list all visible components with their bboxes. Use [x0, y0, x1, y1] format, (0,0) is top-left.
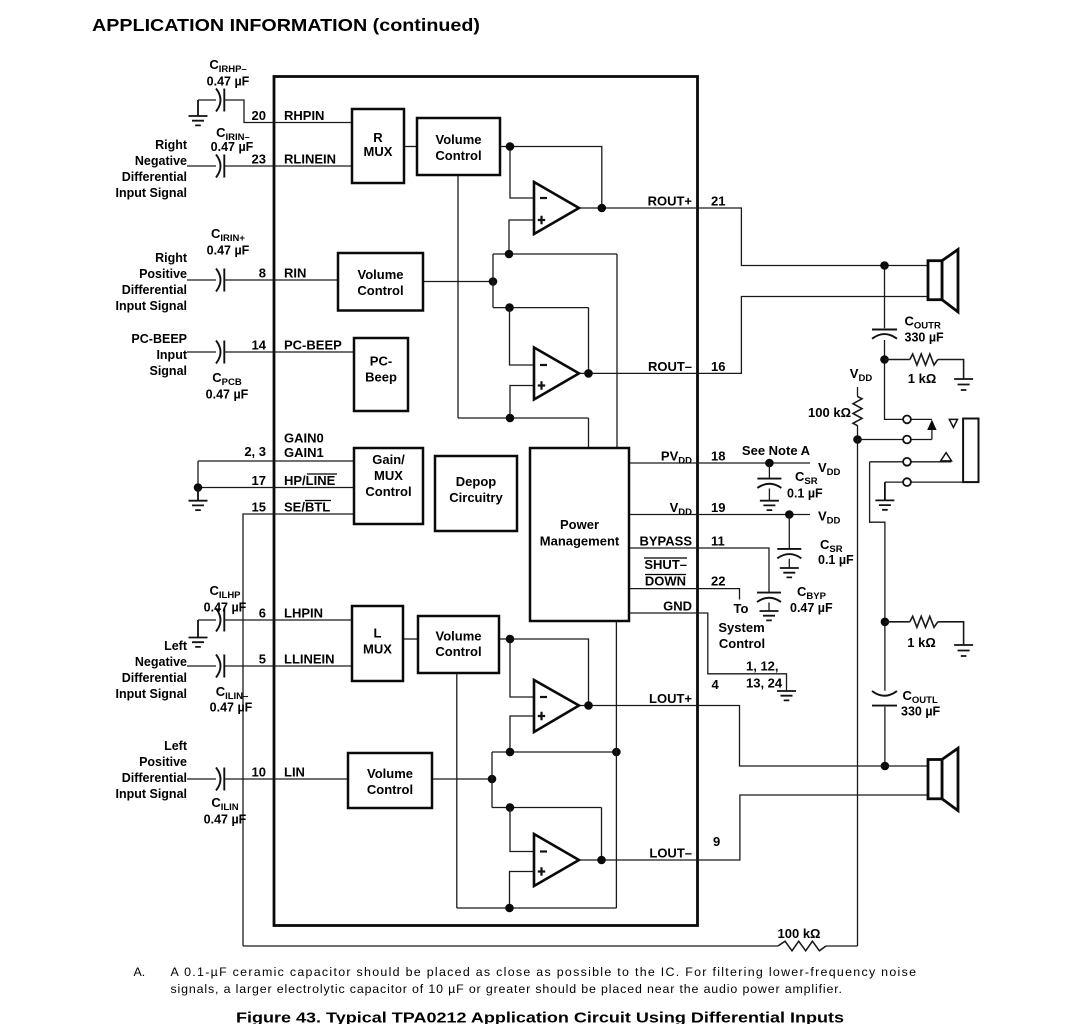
svg-text:21: 21 [711, 194, 725, 209]
resistor 100 kOhm feedback (bottom) [243, 945, 778, 947]
wire VDD pin 19 from power management [629, 514, 698, 516]
op-amp U2A ROUT+ [534, 182, 579, 234]
svg-text:System: System [718, 620, 764, 635]
svg-text:MUX: MUX [364, 144, 393, 159]
block Volume Control (RIN) [338, 253, 423, 311]
svg-text:HP/LINE: HP/LINE [284, 473, 336, 488]
svg-text:1, 12,: 1, 12, [746, 659, 779, 674]
junction RIN VC node [489, 277, 498, 286]
svg-text:Input Signal: Input Signal [115, 787, 187, 801]
svg-text:LLINEIN: LLINEIN [284, 652, 335, 667]
wire PC-BEEP input net [187, 351, 274, 353]
wire vertical link node A to node B [492, 254, 494, 308]
block Depop Circuitry [435, 456, 517, 531]
svg-text:0.47 µF: 0.47 µF [211, 140, 254, 154]
wire node D horizontal [492, 751, 616, 753]
svg-text:0.1 µF: 0.1 µF [787, 487, 823, 501]
svg-text:MUX: MUX [363, 642, 392, 657]
svg-text:Beep: Beep [365, 370, 397, 385]
capacitor CIRIN+ 0.47uF [216, 269, 224, 292]
capacitor CILIN- 0.47uF [216, 655, 224, 678]
wire L volume control bottom tap to node F [456, 673, 458, 908]
svg-text:Negative: Negative [135, 655, 187, 669]
svg-text:Control: Control [719, 636, 765, 651]
block R MUX [352, 109, 404, 183]
wire ROUT+ pin 21 to right speaker [698, 208, 928, 266]
svg-text:16: 16 [711, 359, 725, 374]
wire node A to power management [616, 254, 618, 448]
wire pin20 RHPIN to R MUX [274, 122, 352, 124]
wire pin8 RIN to Volume Control [274, 279, 338, 281]
wire ROUT+ output pin 21 [579, 207, 698, 209]
wire pin14 PC-BEEP to PC-Beep block [274, 351, 354, 353]
wire node A horizontal [493, 253, 617, 255]
svg-text:LOUT+: LOUT+ [649, 691, 692, 706]
wire node C to power management [588, 418, 590, 448]
svg-text:ROUT–: ROUT– [648, 359, 692, 374]
wire COUTL to left speaker node [884, 707, 886, 766]
svg-text:11: 11 [711, 534, 725, 549]
svg-text:100 kΩ: 100 kΩ [778, 926, 821, 941]
jack switch contact (open, up) [941, 453, 952, 461]
svg-text:23: 23 [252, 152, 266, 167]
junction node L volume out [506, 635, 515, 644]
ground for GND pins 1,12,13,24 [777, 691, 796, 700]
wire pins2,3 GAIN to Gain/MUX Control [274, 460, 354, 462]
resistor 100 kOhm pull-up [857, 387, 859, 397]
svg-text:Right: Right [155, 138, 188, 152]
junction node E [506, 803, 515, 812]
svg-text:MUX: MUX [374, 468, 403, 483]
wire node B horizontal [493, 307, 589, 309]
ground for CSR2 [780, 568, 799, 577]
junction ROUT- output node [584, 369, 593, 378]
svg-text:Volume: Volume [436, 132, 482, 147]
svg-text:19: 19 [711, 500, 725, 515]
svg-text:PC-BEEP: PC-BEEP [131, 332, 187, 346]
svg-text:4: 4 [712, 677, 720, 692]
wire GAIN0/GAIN1 net pins 2,3 [198, 461, 274, 488]
svg-text:0.1 µF: 0.1 µF [818, 553, 854, 567]
svg-text:Control: Control [365, 484, 411, 499]
junction 1k R node [880, 355, 889, 364]
junction LOUT+ output node [584, 701, 593, 710]
wire pin10 LIN to Volume Control [274, 778, 348, 780]
junction node D [506, 748, 515, 757]
svg-text:RHPIN: RHPIN [284, 108, 324, 123]
wire LIN volume control output [432, 778, 492, 780]
wire BYPASS pin 11 external to CBYP [698, 548, 769, 592]
junction node D right at PM drop [612, 748, 621, 757]
svg-text:Positive: Positive [139, 755, 187, 769]
ground for CSR1 [760, 501, 779, 510]
wire speaker node down to COUTR [884, 266, 886, 329]
svg-text:0.47 µF: 0.47 µF [207, 75, 250, 89]
svg-text:Control: Control [367, 782, 413, 797]
wire contact3 drop to COUTL branch [870, 462, 885, 691]
wire ROUT- pin 16 to right speaker [698, 297, 928, 374]
svg-text:signals, a larger electrolytic: signals, a larger electrolytic capacitor… [171, 982, 842, 996]
svg-text:13, 24: 13, 24 [746, 676, 783, 691]
junction node C [506, 414, 515, 423]
svg-text:PC-BEEP: PC-BEEP [284, 338, 342, 353]
wire pin23 RLINEIN to R MUX [274, 165, 352, 167]
junction LOUT+ speaker node [881, 762, 890, 771]
wire BYPASS pin 11 from power management [629, 547, 698, 549]
wire L Volume Control output to node [499, 638, 510, 640]
resistor 1 kOhm (left channel) [885, 621, 910, 623]
jack body [963, 419, 978, 483]
ground for HP/LINE and GAIN pins [189, 488, 208, 511]
junction node F [505, 904, 514, 913]
svg-text:SE/BTL: SE/BTL [284, 500, 330, 515]
svg-text:0.47 µF: 0.47 µF [206, 388, 249, 402]
block Volume Control (left top) [418, 616, 499, 673]
capacitor CPCB 0.47uF [216, 341, 224, 364]
wire pin5 LLINEIN to L MUX [274, 665, 352, 667]
capacitor COUTR 330uF [872, 330, 897, 339]
wire LIN input net [187, 778, 274, 780]
svg-text:A.: A. [134, 965, 146, 979]
wire COUTR to 1k junction and jack tip [885, 340, 904, 419]
svg-text:Differential: Differential [122, 671, 187, 685]
junction LOUT- output node [597, 856, 606, 865]
wire RIN volume control output [423, 281, 493, 283]
svg-text:8: 8 [259, 266, 266, 281]
wire volume control bottom tap to node C [457, 175, 459, 418]
wire noninverting input U2B to node C [510, 386, 534, 419]
speaker left channel [928, 748, 958, 810]
svg-text:APPLICATION INFORMATION (conti: APPLICATION INFORMATION (continued) [92, 15, 480, 35]
resistor 1 kOhm (right channel) [885, 359, 910, 361]
wire RHPIN net: ground-cap-jog into pin 20 [198, 100, 274, 123]
svg-text:Gain/: Gain/ [372, 452, 405, 467]
svg-text:BYPASS: BYPASS [640, 534, 693, 549]
junction ROUT+ output node [598, 204, 607, 213]
svg-text:See Note A: See Note A [742, 443, 811, 458]
svg-text:PC-: PC- [370, 354, 392, 369]
wire to inverting input amp U2A [510, 147, 534, 199]
wire RIN input net [187, 279, 274, 281]
wire GND pin from power management [629, 612, 698, 614]
wire R MUX to Volume Control [404, 146, 417, 148]
block Volume Control (right top) [417, 118, 500, 175]
wire sense node to jack ring contact [858, 439, 932, 441]
op-amp U3A LOUT+ [534, 680, 579, 732]
wire SHUTDOWN pin 22 from power management [629, 588, 698, 590]
wire pin17 HP/LINE to Gain/MUX Control [274, 487, 354, 489]
block PC-Beep [354, 338, 408, 411]
svg-text:RIN: RIN [284, 266, 306, 281]
op-amp U2B ROUT- [534, 348, 579, 400]
svg-text:Right: Right [155, 251, 188, 265]
svg-text:Volume: Volume [358, 267, 404, 282]
svg-text:R: R [373, 130, 383, 145]
wire node C horizontal [458, 417, 589, 419]
wire LLINEIN input net [187, 665, 274, 667]
svg-text:Control: Control [435, 148, 481, 163]
wire ROUT- output pin 16 [579, 372, 698, 374]
wire noninverting input amp U2A down to node A [509, 220, 534, 254]
capacitor CSR 0.1uF at PVDD [768, 463, 770, 478]
svg-text:Input Signal: Input Signal [115, 687, 187, 701]
svg-text:Differential: Differential [122, 771, 187, 785]
wire noninverting input U3A down to node D [510, 716, 534, 752]
svg-text:Left: Left [164, 739, 188, 753]
wire to inverting input amp U3A [510, 639, 534, 697]
svg-text:Signal: Signal [149, 364, 187, 378]
svg-text:0.47 µF: 0.47 µF [790, 601, 833, 615]
block Gain/MUX Control [354, 448, 423, 524]
svg-text:Figure 43. Typical TPA0212 App: Figure 43. Typical TPA0212 Application C… [236, 1011, 844, 1024]
svg-text:5: 5 [259, 652, 266, 667]
wire pin15 SE/BTL to Gain/MUX Control [274, 513, 354, 515]
svg-text:RLINEIN: RLINEIN [284, 152, 336, 167]
svg-text:ROUT+: ROUT+ [648, 194, 693, 209]
junction node A [505, 250, 514, 259]
wire SE/BTL net pin 15 going down to 100k [243, 514, 274, 946]
svg-text:DOWN: DOWN [645, 574, 686, 589]
junction node B [505, 303, 514, 312]
wire LOUT+ output pin 4 [579, 705, 698, 707]
svg-text:Left: Left [164, 639, 188, 653]
wire sense line down to 100k bottom [857, 440, 859, 947]
capacitor CILHP 0.47uF [216, 609, 224, 632]
capacitor CIRHP- 0.47uF [216, 89, 224, 112]
jack switch arrow (filled) [927, 420, 936, 430]
svg-text:L: L [374, 626, 382, 641]
jack contact circles [903, 416, 911, 424]
block Power Management [530, 448, 629, 621]
svg-text:14: 14 [252, 338, 267, 353]
junction VDD node [785, 510, 794, 519]
svg-text:1 kΩ: 1 kΩ [907, 635, 936, 650]
block Volume Control (LIN) [348, 753, 432, 808]
svg-text:Circuitry: Circuitry [449, 490, 503, 505]
capacitor COUTL 330uF [872, 691, 897, 706]
wire jack tip extension [911, 418, 932, 420]
svg-text:1 kΩ: 1 kΩ [908, 371, 937, 386]
wire feedback LOUT+ amp top [510, 639, 589, 706]
svg-text:18: 18 [711, 449, 725, 464]
svg-text:Volume: Volume [367, 766, 413, 781]
svg-text:Input Signal: Input Signal [115, 186, 187, 200]
junction LIN VC node [488, 775, 497, 784]
svg-text:Differential: Differential [122, 283, 187, 297]
wire node F horizontal [457, 907, 617, 909]
svg-text:To: To [734, 601, 749, 616]
block L MUX [352, 606, 403, 681]
capacitor CBYP 0.47uF [757, 593, 781, 602]
svg-text:Negative: Negative [135, 154, 187, 168]
wire jack contact 4 sleeve [885, 481, 963, 483]
wire feedback ROUT+ amp top [510, 147, 602, 209]
svg-text:330 µF: 330 µF [901, 705, 941, 719]
wire node E to inverting input amp U3B [510, 808, 534, 852]
svg-text:GAIN0: GAIN0 [284, 431, 324, 446]
svg-text:Differential: Differential [122, 170, 187, 184]
junction ROUT+ speaker node [880, 261, 889, 270]
svg-text:LIN: LIN [284, 765, 305, 780]
jack switch contact (open, down) [949, 419, 957, 427]
svg-text:Depop: Depop [456, 474, 497, 489]
wire noninverting input U3B to node F [510, 872, 535, 909]
svg-text:2, 3: 2, 3 [244, 444, 266, 459]
svg-text:0.47 µF: 0.47 µF [204, 813, 247, 827]
svg-text:0.47 µF: 0.47 µF [204, 601, 247, 615]
svg-text:Management: Management [540, 534, 620, 549]
svg-text:Positive: Positive [139, 267, 187, 281]
svg-text:15: 15 [252, 500, 266, 515]
wire feedback amp U3B [601, 808, 603, 861]
wire node E horizontal [492, 807, 602, 809]
svg-text:LHPIN: LHPIN [284, 606, 323, 621]
wire VDD pin 19 external [698, 514, 810, 516]
wire HP/LINE net pin 17 [198, 487, 274, 489]
wire node B to inverting input amp U2B [510, 308, 535, 365]
svg-text:LOUT–: LOUT– [649, 846, 692, 861]
capacitor CIRIN- 0.47uF [216, 155, 224, 178]
svg-text:Input: Input [156, 348, 187, 362]
svg-text:Control: Control [357, 283, 403, 298]
wire feedback amp U2B [588, 308, 590, 374]
junction sense node [853, 435, 862, 444]
svg-text:GND: GND [663, 599, 692, 614]
svg-text:Input Signal: Input Signal [115, 299, 187, 313]
svg-text:10: 10 [252, 765, 266, 780]
svg-text:6: 6 [259, 606, 266, 621]
wire LOUT- pin 9 to left speaker [698, 795, 928, 860]
speaker right channel [928, 250, 958, 312]
ground for jack sleeve [875, 482, 894, 510]
ground for CBYP [760, 611, 779, 620]
wire LOUT+ pin 4 to left speaker [698, 706, 928, 767]
wire RLINEIN input net [187, 165, 274, 167]
capacitor CSR 0.1uF at VDD [788, 515, 790, 549]
svg-text:100 kΩ: 100 kΩ [808, 405, 851, 420]
wire power management bottom drop [615, 621, 617, 908]
svg-text:Control: Control [435, 644, 481, 659]
svg-text:SHUT–: SHUT– [644, 557, 687, 572]
svg-text:GAIN1: GAIN1 [284, 445, 324, 460]
svg-text:Power: Power [560, 517, 599, 532]
ground for CIRHP [189, 100, 208, 125]
wire LOUT- output pin 9 [579, 859, 698, 861]
junction HP/LINE ground node [194, 483, 203, 492]
wire L MUX to Volume Control [403, 638, 418, 640]
wire pin6 LHPIN to L MUX [274, 619, 352, 621]
ground for CILHP [189, 620, 208, 647]
wire PVDD pin 18 external [698, 462, 810, 464]
junction node R volume out [506, 142, 515, 151]
ground for 1k left [954, 645, 973, 656]
wire GND pin external [698, 613, 787, 691]
wire vertical link node D to node E [491, 752, 493, 808]
svg-text:330 µF: 330 µF [905, 331, 945, 345]
wire LHPIN net pin 6 [198, 619, 274, 621]
junction PVDD node [765, 459, 774, 468]
wire SHUTDOWN pin 22 external stub [698, 589, 740, 600]
IC U1 TPA0212 boundary box [274, 77, 698, 926]
op-amp U3B LOUT- [534, 834, 579, 886]
capacitor CILIN 0.47uF [216, 768, 224, 791]
svg-text:Volume: Volume [436, 629, 482, 644]
wire jack contact 3 [870, 461, 952, 463]
svg-text:22: 22 [711, 574, 725, 589]
wire Volume Control output to node [500, 146, 510, 148]
svg-text:20: 20 [252, 108, 266, 123]
junction 1k L node [881, 618, 890, 627]
svg-text:0.47 µF: 0.47 µF [207, 244, 250, 258]
svg-text:0.47 µF: 0.47 µF [210, 701, 253, 715]
svg-text:9: 9 [713, 834, 720, 849]
svg-text:17: 17 [252, 473, 266, 488]
ground for 1k right [954, 379, 973, 390]
wire PVDD pin 18 from power management [629, 462, 698, 464]
